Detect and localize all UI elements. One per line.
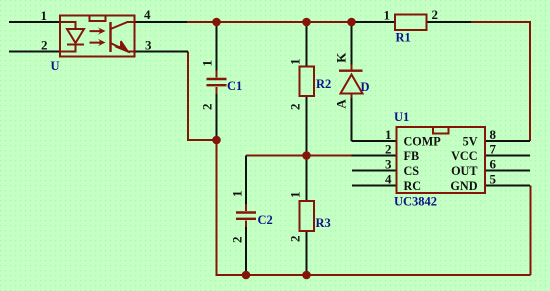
svg-text:1: 1 <box>230 191 245 198</box>
svg-text:7: 7 <box>490 142 497 157</box>
svg-text:2: 2 <box>288 104 303 111</box>
svg-text:2: 2 <box>288 236 303 243</box>
svg-text:K: K <box>334 52 349 63</box>
svg-text:2: 2 <box>200 104 215 111</box>
svg-text:4: 4 <box>385 172 392 187</box>
svg-text:CS: CS <box>404 164 420 178</box>
svg-text:C1: C1 <box>227 79 242 93</box>
svg-text:R2: R2 <box>316 77 331 91</box>
svg-text:8: 8 <box>490 127 497 142</box>
svg-text:A: A <box>334 99 349 109</box>
svg-text:1: 1 <box>200 60 215 67</box>
svg-text:VCC: VCC <box>451 149 477 163</box>
svg-text:1: 1 <box>288 59 303 66</box>
svg-text:COMP: COMP <box>404 135 442 149</box>
svg-text:R1: R1 <box>396 31 411 45</box>
svg-text:1: 1 <box>288 192 303 199</box>
svg-text:FB: FB <box>404 149 420 163</box>
svg-text:5: 5 <box>490 172 497 187</box>
svg-text:3: 3 <box>385 157 392 172</box>
svg-text:C2: C2 <box>258 213 273 227</box>
svg-text:6: 6 <box>490 157 497 172</box>
svg-text:U1: U1 <box>394 110 409 124</box>
svg-text:D: D <box>361 80 370 94</box>
svg-text:R3: R3 <box>316 216 331 230</box>
svg-text:U: U <box>51 59 60 73</box>
svg-text:RC: RC <box>404 179 422 193</box>
svg-text:3: 3 <box>145 38 152 53</box>
svg-text:2: 2 <box>385 142 392 157</box>
svg-text:1: 1 <box>384 8 391 23</box>
svg-text:1: 1 <box>41 8 48 23</box>
svg-text:OUT: OUT <box>451 164 477 178</box>
svg-text:2: 2 <box>41 38 48 53</box>
svg-text:5V: 5V <box>463 135 478 149</box>
svg-text:1: 1 <box>385 127 392 142</box>
svg-text:2: 2 <box>432 7 439 22</box>
svg-text:4: 4 <box>144 7 151 22</box>
svg-text:GND: GND <box>450 179 477 193</box>
svg-text:UC3842: UC3842 <box>394 195 437 209</box>
svg-text:2: 2 <box>230 237 245 244</box>
